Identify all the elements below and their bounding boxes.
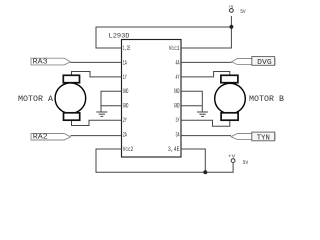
wire motorA top to 1Y [72,72,122,77]
wire Vcc2 to bottom rail [96,149,233,172]
terminal tag RA2 [31,134,71,142]
svg-text:GND: GND [123,88,129,95]
wire GND1 right [181,91,202,111]
terminal tag TYN (right bottom) [231,132,275,142]
svg-text:+V: +V [228,154,236,159]
wire 3A to tag [181,135,231,137]
svg-text:1,2E: 1,2E [123,45,131,52]
svg-text:RA2: RA2 [33,134,48,142]
wire GND2 right [181,105,202,107]
svg-text:DVG: DVG [257,59,272,67]
svg-text:MOTOR A: MOTOR A [18,95,53,104]
svg-text:GND: GND [123,103,129,110]
svg-text:3,4E: 3,4E [168,146,180,153]
svg-text:Vcc1: Vcc1 [169,45,180,52]
svg-text:1A: 1A [123,59,127,66]
svg-text:1Y: 1Y [123,74,127,81]
ground right [197,112,208,116]
wire 3,4E to bottom rail [181,149,205,172]
svg-text:5V: 5V [243,159,249,166]
wire GND1 left [101,91,122,111]
wire motorA bottom to 2Y [72,120,122,125]
IC U1 L293D motor driver body [122,40,182,158]
svg-text:GND: GND [174,88,180,95]
power 5V top [229,6,247,15]
motor M_B [215,75,246,120]
svg-text:Vcc2: Vcc2 [123,146,133,153]
wire Vcc1 to top rail [181,27,231,48]
svg-text:3Y: 3Y [176,117,180,124]
power 5V bottom [228,154,249,166]
svg-text:MOTOR B: MOTOR B [249,95,284,104]
svg-text:+V: +V [229,6,234,10]
ground left [96,112,107,116]
wire top rail 5V to 1,2E [96,16,231,48]
terminal tag RA3 [31,58,71,66]
wire GND2 left [101,105,122,107]
wire RA3 to 1A [71,61,122,63]
wire 3Y to motorB bottom [181,120,230,126]
motor M_A [55,75,86,120]
svg-text:TYN: TYN [257,134,270,142]
svg-text:2A: 2A [123,132,127,139]
wire 4Y to motorB top [181,72,230,77]
junction bottom [203,170,207,174]
terminal tag DVG (right top) [232,57,276,67]
svg-text:3A: 3A [176,132,180,139]
svg-text:5V: 5V [240,8,246,15]
wire RA2 to 2A [71,135,122,137]
svg-text:4A: 4A [176,59,180,66]
svg-text:RA3: RA3 [33,59,48,67]
wire 4A to tag [181,61,232,63]
svg-text:4Y: 4Y [176,74,180,81]
svg-text:L293D: L293D [109,32,130,40]
svg-text:2Y: 2Y [123,117,127,124]
svg-text:GND: GND [174,103,180,110]
junction top [229,25,233,29]
